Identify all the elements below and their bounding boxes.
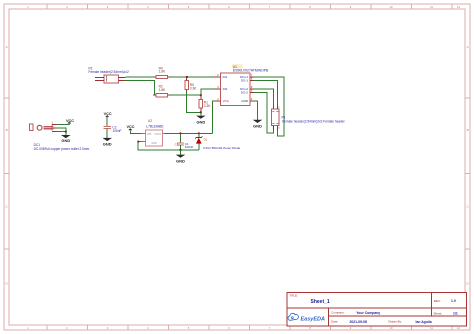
capacitor C1 [175, 142, 194, 149]
svg-text:DS90LV027ATM/NOPB: DS90LV027ATM/NOPB [233, 68, 269, 72]
svg-text:GND: GND [61, 138, 70, 143]
svg-text:B: B [467, 128, 469, 132]
wire R2 to DI2 node [170, 94, 200, 96]
power flag VCC at DC1 [66, 119, 74, 125]
wire C1 to ground rail [180, 145, 182, 150]
resistor R5 [185, 77, 197, 91]
node DI2 junction [200, 94, 202, 96]
IC U1 [215, 64, 269, 106]
node ground rail C1 junction [179, 149, 181, 151]
wire R4 to U1 DI1 [170, 76, 214, 78]
svg-text:TITLE:: TITLE: [289, 294, 298, 298]
svg-text:DI1: DI1 [223, 75, 228, 79]
svg-text:10: 10 [390, 5, 393, 9]
svg-text:EasyEDA: EasyEDA [301, 316, 325, 322]
title block [287, 292, 467, 326]
svg-text:REV:: REV: [434, 299, 441, 303]
connector P1 [272, 104, 346, 130]
resistor R2 [153, 85, 170, 97]
svg-text:10: 10 [390, 326, 393, 330]
node rail D1 junction [198, 132, 200, 134]
node DI1 junction [186, 76, 188, 78]
svg-text:A: A [467, 45, 469, 49]
resistor R1 [199, 95, 211, 112]
ground below U1 [253, 120, 263, 129]
wire U1 VCC to 3.3V rail [212, 101, 214, 133]
capacitor C2 [104, 126, 122, 133]
wire VCC to C2 [106, 117, 108, 126]
connector DC1 [30, 122, 90, 151]
svg-text:GND: GND [103, 142, 112, 147]
svg-text:GND: GND [253, 124, 262, 129]
svg-text:GND: GND [176, 158, 185, 163]
ground below C1 [176, 150, 186, 164]
frame column numbers bottom [27, 326, 460, 330]
svg-text:12: 12 [457, 5, 460, 9]
wire VCC to U2 VIN [130, 130, 141, 133]
wire DC1.3 to junction [57, 131, 66, 133]
svg-text:C1: C1 [175, 142, 179, 146]
wire P2.2 down to R2 [125, 81, 154, 96]
frame column numbers top [27, 5, 460, 9]
node U2 GND pin joint [137, 141, 139, 143]
frame row letters left [6, 45, 9, 286]
wire DC1.1 to VCC [57, 124, 70, 126]
node rail C1 junction [179, 132, 181, 134]
svg-text:Sheet:: Sheet: [434, 312, 443, 316]
node DC1 ground junction [65, 131, 67, 133]
wire DI2 node up to U1 DI2 [201, 89, 215, 95]
svg-text:VOUT: VOUT [154, 133, 161, 136]
svg-text:Your Company: Your Company [356, 311, 380, 315]
svg-text:1.8K: 1.8K [159, 70, 166, 74]
svg-text:3.3K: 3.3K [204, 104, 211, 108]
svg-text:DC-005Full copper power outlet: DC-005Full copper power outlet 2.0mm [34, 147, 90, 151]
svg-text:1.0: 1.0 [451, 299, 456, 303]
connector P2 [89, 67, 129, 83]
svg-text:DO-2: DO-2 [241, 91, 248, 95]
svg-text:VIN: VIN [147, 133, 151, 136]
wire P2.1 to R4 [125, 76, 153, 78]
wire C2 to ground [106, 129, 108, 138]
wire rail to C1 [180, 133, 182, 143]
svg-text:3.3K: 3.3K [190, 86, 197, 90]
svg-text:11: 11 [430, 5, 433, 9]
ground at DC1 [61, 132, 71, 143]
svg-text:12: 12 [457, 326, 460, 330]
node R1 bottom junction [200, 111, 202, 113]
svg-text:3.9Vz 800mW Zener Diode: 3.9Vz 800mW Zener Diode [203, 146, 241, 150]
svg-text:100nF: 100nF [185, 145, 194, 149]
svg-text:GND: GND [151, 142, 157, 145]
svg-text:GND: GND [241, 99, 249, 103]
wire U1 GND to ground [254, 101, 258, 120]
svg-text:VCC: VCC [223, 99, 230, 103]
wire DC1.2 to junction [57, 128, 66, 132]
svg-text:Female header(2.54mm)2x2 Femal: Female header(2.54mm)2x2 Female header [282, 120, 345, 124]
resistor R4 [153, 66, 170, 78]
svg-text:Company:: Company: [331, 311, 344, 315]
svg-text:Female header(2.54mm)1x2: Female header(2.54mm)1x2 [89, 70, 129, 74]
svg-text:DI2: DI2 [223, 87, 228, 91]
svg-text:VCC: VCC [126, 125, 134, 129]
svg-text:Date:: Date: [331, 320, 338, 324]
svg-text:Sheet_1: Sheet_1 [311, 299, 330, 305]
wire DO-1 to P1 pin2 [254, 80, 278, 104]
diode D1 [195, 136, 240, 150]
svg-text:GND: GND [196, 119, 205, 124]
svg-text:Ian Aguila: Ian Aguila [416, 320, 432, 324]
EasyEDA logo [288, 313, 325, 322]
svg-text:DO-1: DO-1 [241, 79, 248, 83]
frame row letters right [467, 45, 470, 286]
ground below R1 [196, 112, 206, 124]
power flag VCC at C2 [104, 112, 112, 117]
svg-text:L78L33ABD: L78L33ABD [146, 124, 164, 128]
svg-text:U2: U2 [148, 119, 152, 123]
wire DO+2 to P1 pin1 [254, 89, 274, 105]
svg-text:VCC: VCC [104, 112, 112, 116]
wire rail to D1 [198, 133, 200, 137]
ground below C2 [102, 138, 112, 147]
svg-text:B: B [6, 128, 8, 132]
svg-text:Drawn By:: Drawn By: [389, 320, 403, 324]
svg-text:D1: D1 [204, 138, 208, 142]
power flag VCC at U2 [126, 125, 134, 130]
wire DO-2 to P1 pin3 [254, 92, 274, 133]
wire U2 GND pin down to ground rail [138, 142, 199, 150]
wire R5 bottom down and right to GND node [187, 91, 201, 112]
svg-text:1/1: 1/1 [453, 312, 458, 316]
svg-text:2021-09-08: 2021-09-08 [350, 320, 367, 324]
svg-text:VCC: VCC [66, 119, 74, 123]
regulator U2 [142, 119, 165, 146]
svg-text:A: A [6, 45, 8, 49]
svg-text:100nF: 100nF [112, 129, 121, 133]
wire U2 VOUT 3.3V rail [165, 132, 213, 134]
wire DO+1 to P1 pin4 [254, 77, 285, 136]
svg-text:1.8K: 1.8K [159, 88, 166, 92]
svg-text:11: 11 [430, 326, 433, 330]
